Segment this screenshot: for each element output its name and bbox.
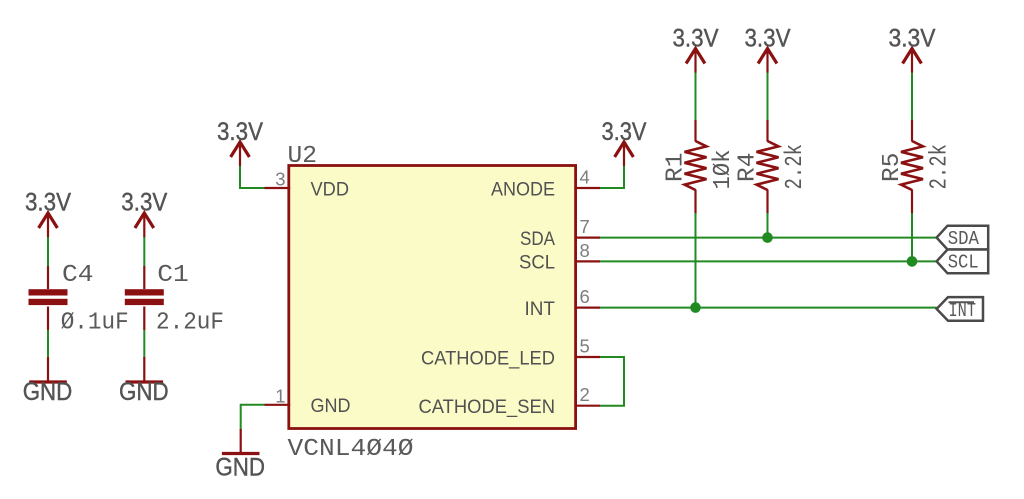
wire C1 to ground [143,330,145,358]
svg-text:CATHODE_SEN: CATHODE_SEN [419,396,556,418]
svg-text:CATHODE_LED: CATHODE_LED [421,347,555,369]
capacitor C1 bottom plate [125,299,164,305]
wire CATHODE_LED to CATHODE_SEN loop [600,357,624,406]
capacitor C4 bottom plate [29,299,68,305]
svg-text:SDA: SDA [948,228,980,250]
junction R4/SDA [762,232,773,243]
supply 3.3V for ANODE arrow [615,142,634,167]
net flag INT overline (active low) [949,301,975,303]
svg-text:5: 5 [580,336,590,357]
resistor R4 bottom lead [766,190,768,214]
svg-text:ANODE: ANODE [491,178,555,200]
IC U2 body (VCNL4040) [289,166,576,429]
wire SDA net [600,237,937,239]
svg-text:GND: GND [311,395,351,417]
supply 3.3V for C1 arrow [135,213,154,238]
supply 3.3V for R5 arrow [903,49,922,74]
svg-text:6: 6 [580,286,590,307]
pin 8 stub [574,260,600,262]
wire C4 to ground [47,330,49,358]
svg-text:C4: C4 [62,262,94,289]
svg-text:VCNL4Ø4Ø: VCNL4Ø4Ø [288,436,414,463]
pin 4 stub [574,187,600,189]
capacitor C1 top plate [125,289,164,295]
wire 3.3V to R1 [695,73,697,121]
svg-text:SCL: SCL [519,252,555,274]
wire 3.3V to R5 [911,73,913,121]
ground symbol under C4 bar [29,380,67,383]
supply 3.3V for C4 arrow [39,213,58,238]
ground pin under U2 [240,429,242,453]
svg-text:GND: GND [119,378,169,406]
svg-text:2: 2 [580,384,590,405]
net flag INT outline [937,297,983,321]
pin 6 stub [574,307,600,309]
supply 3.3V for R1 arrow [686,49,705,74]
svg-text:Ø.1uF: Ø.1uF [61,310,129,337]
ground symbol under C1 bar [126,380,164,383]
svg-text:7: 7 [580,216,590,237]
svg-text:1: 1 [275,386,285,407]
svg-text:VDD: VDD [311,178,350,200]
wire C1 3.3V to cap [143,237,145,267]
wire R4 to SDA net [767,213,769,238]
net flag SDA outline [937,226,989,250]
capacitor C1 bottom lead [143,307,145,331]
wire 3.3V to R4 [767,73,769,121]
svg-text:SCL: SCL [948,252,979,274]
svg-text:8: 8 [580,240,590,261]
svg-text:GND: GND [215,454,265,482]
resistor R5 bottom lead [911,190,913,214]
svg-text:INT: INT [525,298,556,320]
pin 1 stub (GND) [265,404,291,406]
resistor R4 zigzag [757,141,779,190]
resistor R1 top lead [694,120,696,142]
capacitor C4 top lead [47,266,49,289]
junction R5/SCL [907,256,918,267]
svg-text:2.2k: 2.2k [782,144,809,190]
supply 3.3V for R4 arrow [758,49,777,74]
svg-text:C1: C1 [157,262,189,289]
wire INT net [600,307,937,309]
pin 2 stub [574,405,600,407]
capacitor C4 bottom lead [47,307,49,331]
junction R1/INT [690,302,701,313]
svg-text:GND: GND [23,378,73,406]
ground symbol under U2 bar [222,452,260,455]
svg-text:4: 4 [580,167,590,188]
svg-text:1Øk: 1Øk [710,150,737,190]
svg-text:R1: R1 [663,153,690,182]
svg-text:2.2uF: 2.2uF [156,310,224,337]
resistor R1 zigzag [685,141,707,190]
svg-text:U2: U2 [288,143,318,170]
wire R1 to INT net [695,213,697,308]
pin 3 stub (VDD) [265,187,291,189]
capacitor C4 top plate [29,289,68,295]
svg-text:R4: R4 [735,153,762,182]
resistor R1 bottom lead [694,190,696,214]
svg-text:2.2k: 2.2k [927,144,954,190]
ground pin C1 [143,357,145,381]
resistor R4 top lead [766,120,768,142]
pin 5 stub [574,356,600,358]
wire R5 to SCL net [911,213,913,261]
ground pin C4 [47,357,49,381]
wire 3.3V to pin 4 [600,166,624,188]
wire C4 3.3V to cap [47,237,49,267]
supply 3.3V for U2 VDD arrow [231,142,250,167]
svg-text:R5: R5 [879,153,906,182]
wire pin 1 to ground [241,405,265,430]
wire 3.3V to pin 3 [240,166,265,188]
svg-text:3: 3 [275,169,285,190]
pin 7 stub [574,237,600,239]
capacitor C1 top lead [143,266,145,289]
resistor R5 top lead [911,120,913,142]
resistor R5 zigzag [901,141,923,190]
svg-text:SDA: SDA [520,228,555,250]
net flag SCL outline [937,250,989,274]
wire SCL net [600,260,937,262]
